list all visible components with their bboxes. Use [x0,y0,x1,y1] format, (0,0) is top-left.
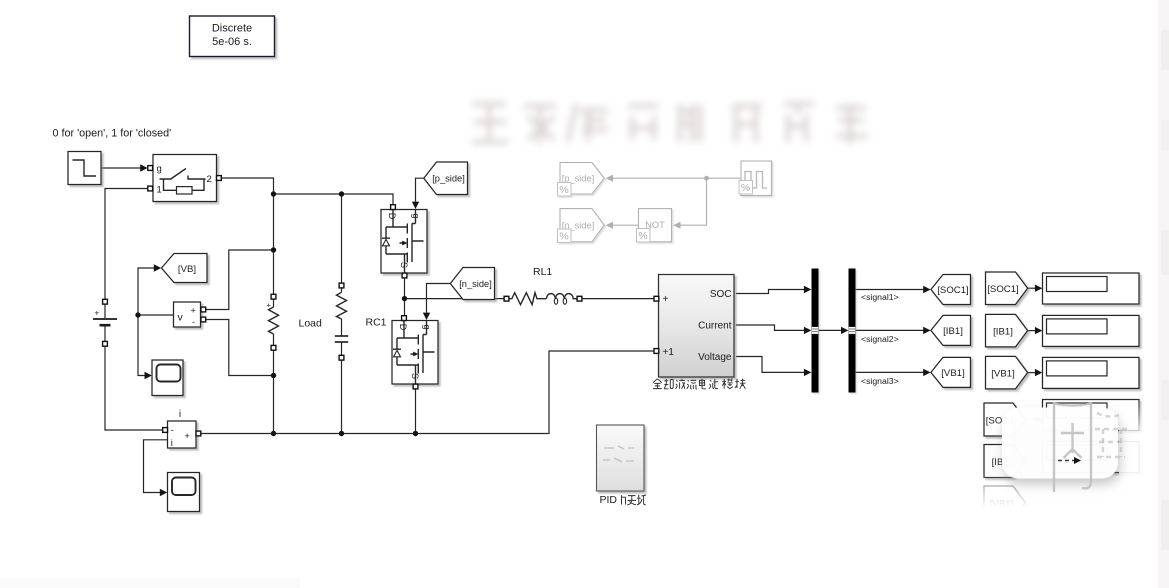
svg-text:i: i [179,409,181,420]
port mosfet2 D [402,316,407,321]
glyph dian [699,379,706,389]
glyph chi [709,379,718,389]
wire mosfet1 S to mosfet2 D [404,278,406,316]
arrowhead down into mosfet2 g [423,313,430,320]
svg-text:-: - [171,425,174,435]
series RL1 branch [509,293,577,305]
wire SOC output to mux [736,290,804,294]
battery module block [659,275,735,378]
svg-text:[VB1]: [VB1] [991,368,1014,379]
arrowhead down into mosfet1 g [412,202,419,209]
node mosfet midpoint [402,296,407,301]
svg-text:[VB1]: [VB1] [941,368,964,379]
svg-text:%: % [559,231,568,243]
wire step to switch gate [101,167,141,169]
port i left [163,428,168,433]
right edge scan noise [1158,0,1169,588]
glyph kuai [735,379,745,389]
watermark blurred text band [472,104,868,144]
wire from IB1 to display2 [1028,330,1036,332]
from tag [IB1] [986,314,1028,347]
wire row A from to display [1025,419,1035,421]
wire i signal output to scope2 [144,440,168,493]
svg-text:PID: PID [600,494,618,506]
bottom right display row B [1043,442,1140,473]
svg-text:RC1: RC1 [366,317,387,329]
resistor branch vertical [273,194,275,434]
display block 1 [1043,273,1140,304]
svg-text:[p_side]: [p_side] [432,174,465,184]
PID module block [597,425,645,491]
load branch vertical [341,194,343,434]
svg-text:0 for 'open', 1 for 'closed': 0 for 'open', 1 for 'closed' [53,128,172,140]
battery top port [103,299,108,304]
wire Current output to mux [736,325,804,330]
port 1 of switch [148,186,153,191]
svg-text:<signal2>: <signal2> [861,334,899,344]
svg-text:-: - [192,317,195,327]
port battery module plus1 [654,349,659,354]
svg-text:%: % [741,182,750,194]
scope Scope1 [152,360,183,396]
watermark white card [1002,408,1118,479]
wire v+ to rail branch [206,250,274,310]
display block 2 [1043,315,1140,346]
node bus / load branch [339,431,344,436]
arrowhead into VB tag [154,264,161,271]
Load RC series branch [335,292,348,342]
port mosfet2 S [413,384,418,389]
breaker switch [153,155,217,202]
svg-text:[IB1]: [IB1] [993,326,1013,337]
svg-text:+: + [663,294,669,305]
wire mux to bus bar2 [819,329,842,331]
glyph ye [676,379,685,389]
svg-text:[SOC1]: [SOC1] [987,284,1018,295]
svg-text:i: i [171,438,173,449]
arrowhead into scope2 [160,489,167,496]
bottom right display row A [1043,400,1140,431]
current measurement I [168,421,197,449]
glyph liu [687,380,697,389]
scope Scope2 [168,473,200,512]
from tag [VB1] [986,356,1028,389]
port resistor bottom [271,345,276,350]
goto tag [VB1] [931,357,971,387]
node v output [135,312,140,317]
svg-text:Load: Load [299,318,323,330]
wire bar2 to goto VB1 [856,371,924,373]
wire from [p_side] tag to mosfet1 gate [416,178,424,202]
svg-text:+1: +1 [663,347,675,358]
mux bus bar1 [812,269,819,393]
node v- join [271,373,276,378]
svg-text:Voltage: Voltage [698,352,732,363]
port v minus [201,317,206,322]
port mosfet1 D [391,205,396,210]
svg-text:+: + [95,309,100,318]
svg-text:g: g [157,164,162,175]
faded wire pulse to junction to p_side [613,177,741,179]
voltage measurement V [174,302,201,327]
label battery module name [653,379,745,389]
from tag [n_side] [450,268,494,300]
display block 3 [1043,357,1140,388]
wire v- to resistor branch [206,320,274,376]
mosfet Q1 [381,210,427,274]
port RL1 right [577,296,582,301]
svg-text:%: % [638,230,647,242]
mosfet Q2 RC1 [392,321,438,385]
junction dots [135,191,418,436]
goto tag [SOC1] [931,275,971,305]
commented-out subsystem (faded) [558,161,772,243]
battery bottom port [103,341,108,346]
wire from [n_side] tag to mosfet2 gate [427,284,451,313]
svg-text:[n_side]: [n_side] [459,279,492,289]
from tag [SOC1] [986,272,1028,305]
wire mosfet2 S to bottom bus [415,389,417,434]
port load bottom [339,355,344,360]
svg-text:RL1: RL1 [533,266,552,278]
port i right [196,431,201,436]
mux bus bar2 [849,269,856,393]
faded wire down to NOT [680,178,706,225]
svg-text:v: v [178,312,184,324]
white fade overlay right of card [1119,398,1169,440]
from tag [p_side] [424,162,468,195]
faded pulse generator [739,161,772,196]
node rail / load branch [339,191,344,196]
watermark xianyu glyphs [1054,404,1127,493]
node bus / mosfet2 S [413,431,418,436]
svg-text:+: + [185,431,190,441]
node bus / resistor branch [271,431,276,436]
svg-text:1: 1 [157,185,162,196]
faded goto tag [p_side] [558,163,605,197]
wire switch out to top rail [221,178,273,194]
bottom edge slight noise [0,578,300,588]
step source [68,152,101,185]
port 2 of switch [217,176,222,181]
svg-text:D: D [398,324,408,331]
wire battery minus down to current sensor [105,346,163,430]
svg-text:D: D [387,213,397,220]
goto tag [IB1] [931,315,971,345]
svg-text:[SOC1]: [SOC1] [937,285,968,296]
svg-text:[VB]: [VB] [178,264,196,275]
faded NOT block [637,209,672,242]
node switch-out / resistor branch [271,191,276,196]
DC voltage source battery [93,304,117,341]
svg-text:Current: Current [698,321,732,332]
wire bar2 to goto SOC1 [856,289,924,291]
svg-text:5e-06 s.: 5e-06 s. [212,36,252,48]
bottom right from tag [VB1] row2 partial [984,486,1025,519]
glyph mo [722,379,733,389]
arrowhead into scope1 [145,372,152,379]
goto tag [VB] [162,254,208,283]
resistor R parallel branch [267,301,279,335]
annotation sample time [190,16,275,57]
bottom right from tag [IB1] row2 [984,445,1025,478]
wire from VB1 to display3 [1028,372,1036,374]
svg-text:%: % [559,184,568,196]
svg-text:<signal1>: <signal1> [861,292,899,302]
svg-text:<signal3>: <signal3> [861,376,899,386]
glyph quan [653,379,662,389]
svg-text:[IB1]: [IB1] [943,326,963,337]
wire junction to RL1 [405,298,505,300]
arrowhead into g [140,164,147,171]
port resistor top [271,294,276,299]
wire from SOC1 to display1 [1028,287,1036,289]
svg-text:SOC: SOC [710,289,732,300]
top rail [274,194,394,205]
wire bar2 to goto IB1 [856,329,924,331]
bottom bus wire [201,351,654,434]
port mosfet1 S [402,273,407,278]
port battery module plus [654,296,659,301]
svg-text:+: + [191,306,196,316]
faded wire NOT to n_side [613,224,639,226]
port g of switch [148,166,153,171]
svg-text:Discrete: Discrete [212,23,252,35]
glyph fan [664,379,673,389]
label PID module [600,494,647,506]
wire battery plus up to switch port1 [105,189,148,300]
dark dashed arrow visible through watermark [1058,457,1081,464]
white fade overlay bottom right [945,473,1169,509]
port v plus [201,307,206,312]
wires group [101,164,1042,496]
port load top [339,283,344,288]
faded node [704,176,709,181]
faded goto tag [n_side] [558,209,605,243]
port RL1 left [504,296,509,301]
wire Voltage output to mux [736,357,804,373]
wire RL1 to battery module [582,298,654,300]
svg-text:+: + [267,301,272,310]
wire v output to VB and scope [138,268,174,315]
svg-text:2: 2 [207,174,212,185]
node v+ join [271,247,276,252]
bottom right from tag [SOC1] row2 [984,403,1025,436]
